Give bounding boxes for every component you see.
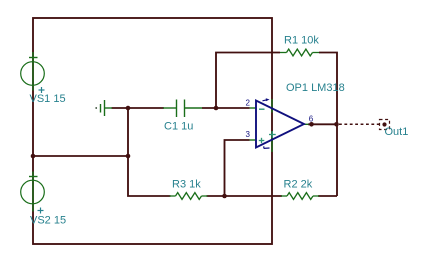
svg-text:R1 10k: R1 10k bbox=[284, 35, 319, 47]
svg-text:R2 2k: R2 2k bbox=[284, 179, 313, 191]
svg-text:6: 6 bbox=[309, 114, 314, 123]
junction node at (128,108) bbox=[126, 106, 131, 111]
svg-text:R3 1k: R3 1k bbox=[172, 179, 201, 191]
op-amp supply polarity mark (+) at pin 4 bbox=[269, 131, 276, 138]
op-amp non-inverting input mark (+) bbox=[259, 138, 265, 143]
resistor R3 bbox=[170, 193, 208, 200]
wire: R2 right to feedback column bbox=[318, 195, 337, 197]
svg-text:Out1: Out1 bbox=[385, 126, 409, 138]
wire: vertical from cap node up-right to R1 rail bbox=[216, 53, 280, 109]
resistor R2 bbox=[281, 193, 319, 200]
voltage source VS1 bbox=[21, 52, 45, 91]
svg-text:2: 2 bbox=[246, 99, 251, 108]
wire: dashed link to Out1 bbox=[339, 123, 380, 125]
junction node op-amp output pin (311.5,124) bbox=[309, 122, 314, 127]
junction node at (216,108) bbox=[214, 106, 219, 111]
wire: pin3 L-wire down to R3 row bbox=[225, 140, 250, 196]
wire: cap right to pin2 bbox=[202, 107, 250, 109]
capacitor C1 bbox=[163, 100, 202, 118]
junction node at (224.5,196) bbox=[222, 194, 227, 199]
svg-text:VS2 15: VS2 15 bbox=[30, 215, 66, 227]
op-amp U1 pin leads (green) bbox=[250, 99, 309, 152]
junction node feedback tap (336.5,124) bbox=[334, 122, 339, 127]
voltage source VS2 bbox=[21, 172, 45, 212]
op-amp OP1 triangle bbox=[256, 101, 304, 148]
svg-text:VS1 15: VS1 15 bbox=[30, 93, 66, 105]
wire: ground lead to cap left bbox=[112, 107, 165, 109]
wire: outer border loop (supply rails) bbox=[33, 18, 272, 244]
wire: R1 right to feedback column bbox=[319, 53, 337, 197]
ground symbol bbox=[101, 100, 113, 116]
wire: op-amp output to feedback column bbox=[308, 123, 337, 125]
label VS2 + polarity bbox=[38, 208, 44, 214]
wire: left border tap y=156 bbox=[33, 155, 128, 157]
resistor R1 bbox=[280, 49, 319, 56]
junction node at (33,156) bbox=[31, 154, 36, 159]
op-amp bottom supply mark bbox=[264, 146, 270, 148]
op-amp inverting input mark (-) bbox=[259, 108, 265, 110]
wire: between R3 and R2 bbox=[207, 195, 283, 197]
junction node at (128,156) bbox=[126, 154, 131, 159]
svg-text:OP1 LM318: OP1 LM318 bbox=[286, 82, 345, 94]
svg-text:C1 1u: C1 1u bbox=[164, 121, 193, 133]
wire: vertical x=128 from top node down to R3 row bbox=[128, 108, 171, 196]
node Out1: terminal dot bbox=[382, 122, 386, 126]
svg-text:3: 3 bbox=[246, 130, 251, 139]
label VS1 + polarity bbox=[39, 87, 45, 93]
op-amp top supply arrow bbox=[263, 98, 270, 101]
node Out1: dashed selection box bbox=[380, 120, 390, 130]
